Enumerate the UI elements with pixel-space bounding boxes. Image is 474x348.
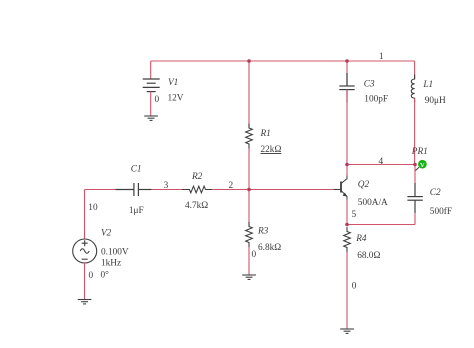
capacitor C3 bbox=[339, 73, 354, 103]
resistor R1 bbox=[246, 124, 253, 149]
svg-text:V: V bbox=[420, 162, 425, 169]
svg-text:R4: R4 bbox=[355, 234, 367, 244]
svg-text:1μF: 1μF bbox=[129, 206, 144, 216]
junction node 2 bbox=[247, 188, 251, 192]
wire V2 horizontal from corner bbox=[85, 189, 116, 191]
svg-text:4: 4 bbox=[379, 157, 384, 167]
wire emitter down bbox=[346, 200, 348, 225]
junction node 4 right bbox=[413, 163, 417, 167]
ground below R3 bbox=[242, 275, 256, 279]
probe PR1 pointer tail bbox=[415, 167, 419, 171]
svg-text:PR1: PR1 bbox=[411, 147, 428, 157]
resistor R4 bbox=[344, 227, 351, 252]
svg-text:R2: R2 bbox=[191, 172, 203, 182]
capacitor C1 bbox=[116, 183, 152, 196]
ground below V1 bbox=[144, 116, 158, 120]
capacitor C2 bbox=[407, 183, 422, 213]
junction node 5 bbox=[345, 223, 349, 227]
svg-text:R1: R1 bbox=[260, 129, 271, 139]
svg-text:R3: R3 bbox=[257, 227, 269, 237]
junction node 1 at R1 bbox=[247, 59, 251, 63]
wire C3 branch upper bbox=[346, 61, 348, 86]
svg-text:0°: 0° bbox=[101, 270, 110, 281]
wire C3 to node 4 bbox=[346, 90, 348, 165]
wire C2 top bbox=[414, 165, 416, 184]
svg-text:12V: 12V bbox=[168, 94, 184, 104]
junction node 1 at C3 bbox=[345, 59, 349, 63]
svg-text:4.7kΩ: 4.7kΩ bbox=[185, 201, 208, 211]
svg-text:0: 0 bbox=[252, 250, 257, 260]
wire V1 bottom bbox=[150, 92, 152, 116]
svg-text:100pF: 100pF bbox=[364, 95, 388, 105]
wire C1 to R2 bbox=[152, 189, 185, 191]
wire top rail node 1 bbox=[151, 60, 415, 62]
svg-text:V2: V2 bbox=[101, 229, 112, 239]
wire bottom node 5 horizontal bbox=[347, 224, 415, 226]
ground bottom right bbox=[340, 329, 354, 333]
svg-text:Q2: Q2 bbox=[358, 180, 370, 190]
svg-text:68.0Ω: 68.0Ω bbox=[357, 251, 380, 261]
svg-text:1: 1 bbox=[379, 52, 384, 62]
resistor R2 bbox=[182, 186, 212, 193]
svg-text:0: 0 bbox=[89, 271, 94, 281]
svg-text:L1: L1 bbox=[422, 80, 433, 90]
svg-text:6.8kΩ: 6.8kΩ bbox=[258, 243, 281, 253]
wire R4 to ground bbox=[346, 252, 348, 329]
junction node 4 left bbox=[345, 163, 349, 167]
svg-text:C2: C2 bbox=[430, 188, 441, 198]
svg-text:5: 5 bbox=[352, 210, 357, 220]
wire R1 to node 2 bbox=[248, 149, 250, 190]
wire R2 to node 2 bbox=[212, 189, 249, 191]
svg-text:500A/A: 500A/A bbox=[358, 198, 388, 208]
svg-text:1kHz: 1kHz bbox=[101, 258, 121, 268]
wire L1 branch upper bbox=[414, 61, 416, 79]
battery V1 bbox=[143, 79, 160, 92]
wire C2 bottom bbox=[414, 213, 416, 224]
probe PR1 green circle bbox=[418, 160, 427, 169]
wire V2 top bbox=[84, 190, 86, 240]
svg-text:V1: V1 bbox=[168, 78, 178, 88]
svg-text:0.100V: 0.100V bbox=[101, 247, 129, 257]
svg-text:C1: C1 bbox=[131, 165, 142, 175]
wire V2 bottom bbox=[84, 263, 86, 300]
inductor L1 bbox=[411, 75, 414, 103]
wire R1 branch upper bbox=[248, 61, 250, 128]
source V2 circle bbox=[73, 239, 97, 263]
transistor Q2 bbox=[334, 175, 347, 200]
wire collector to node 4 bbox=[346, 165, 348, 176]
svg-text:500fF: 500fF bbox=[430, 206, 452, 217]
svg-text:10: 10 bbox=[88, 203, 98, 213]
svg-text:0: 0 bbox=[155, 95, 160, 105]
svg-text:0: 0 bbox=[352, 282, 357, 292]
wire node2 down to R3 bbox=[248, 190, 250, 227]
wire base from node 2 to Q2 bbox=[249, 189, 334, 191]
resistor R3 bbox=[246, 222, 253, 247]
wire L1 to node 4 bbox=[414, 98, 416, 164]
wire node 4 horizontal bbox=[347, 164, 415, 166]
svg-text:90μH: 90μH bbox=[425, 96, 446, 106]
svg-text:C3: C3 bbox=[364, 79, 375, 89]
svg-text:22kΩ: 22kΩ bbox=[261, 145, 282, 155]
wire V1 top bbox=[150, 61, 152, 79]
ground below V2 bbox=[78, 300, 92, 304]
wire R3 to ground bbox=[248, 247, 250, 275]
